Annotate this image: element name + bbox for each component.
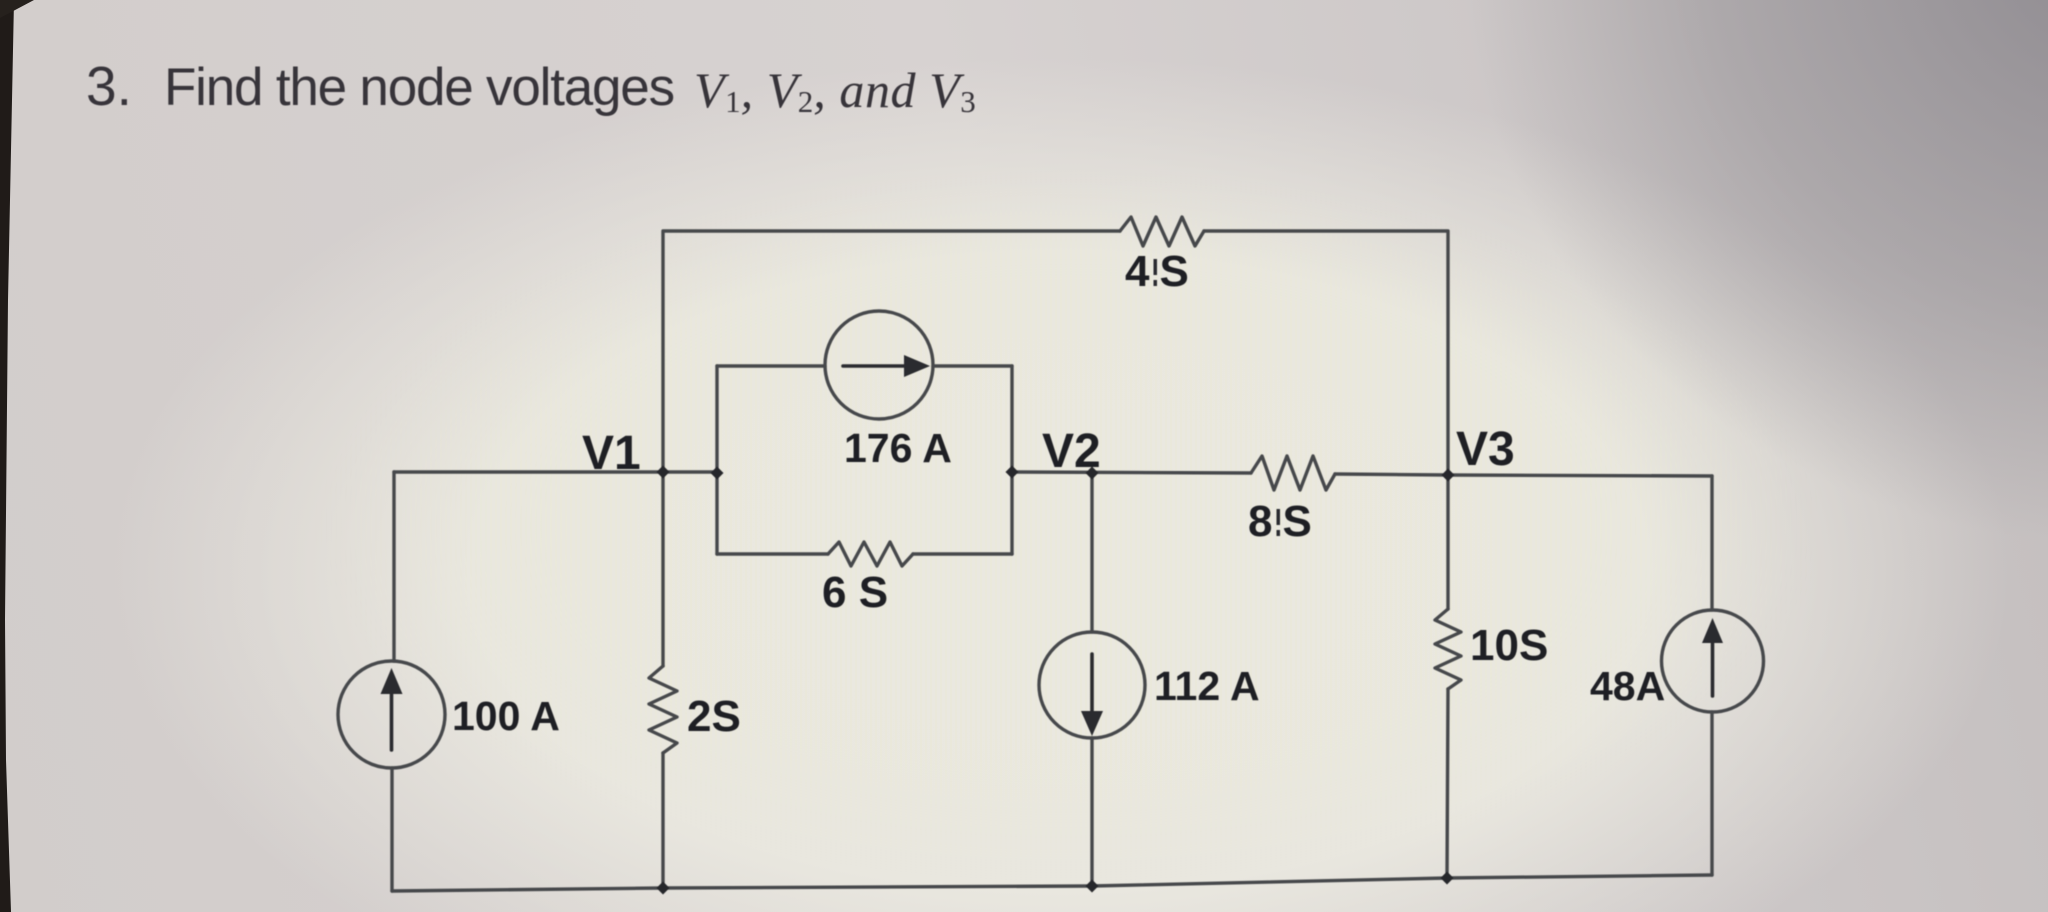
svg-text:2S: 2S <box>687 692 741 741</box>
wire: V2 vertical upper (node to 112A) <box>1090 473 1093 632</box>
resistor R3 4S zigzag <box>1120 217 1204 246</box>
wire: bottom rail <box>392 875 1712 891</box>
junction dot: bottom rail at V2 branch <box>1086 880 1099 893</box>
svg-text:112 A: 112 A <box>1154 663 1260 709</box>
arrow I4 48A (up) <box>1711 642 1715 696</box>
wire: 8S to V3 to right corner <box>1335 474 1712 476</box>
wire: left outer branch top (100A to V1) <box>394 470 663 473</box>
current source I1 100A circle <box>338 661 445 768</box>
svg-text:10S: 10S <box>1470 621 1548 670</box>
svg-text:V1: V1 <box>582 427 641 480</box>
junction dot: node V2 <box>1086 467 1099 480</box>
junction dot: bottom rail at V3 branch <box>1441 872 1454 885</box>
current source I2 176A circle <box>825 311 933 419</box>
svg-text:176 A: 176 A <box>844 425 952 471</box>
wire: subloop right vertical <box>1010 366 1013 554</box>
wire: V1 vertical upper (node to 2S) <box>661 472 664 666</box>
wire: V3 vertical upper (node to 10S) <box>1446 475 1449 609</box>
svg-text:6 S: 6 S <box>822 568 888 617</box>
resistor R5 10S zigzag <box>1435 609 1461 689</box>
wire: subloop bottom right segment <box>913 552 1012 555</box>
wire: main run subloop-right to V2 to 8S <box>1012 472 1251 473</box>
title: problem statement <box>0 0 2048 1</box>
wire: subloop left vertical <box>715 366 718 554</box>
svg-text:V2: V2 <box>1042 425 1101 478</box>
wire: subloop top left segment <box>717 364 825 367</box>
current source I3 112A circle <box>1039 632 1145 738</box>
wire: left outer vertical upper (above 100A source) <box>392 472 395 661</box>
svg-text:V3: V3 <box>1456 423 1515 476</box>
wire: V3 vertical lower (10S to bottom rail) <box>1447 689 1448 878</box>
resistor R1 2S zigzag <box>649 666 677 753</box>
arrow I3 112A (down) <box>1090 654 1094 712</box>
arrow I1 100A (up) <box>390 694 394 750</box>
resistor R4 8S zigzag <box>1251 456 1335 490</box>
wire: V2 vertical lower (112A to bottom rail) <box>1090 738 1093 886</box>
junction dot: subloop right on main wire <box>1006 466 1019 479</box>
wire: V1 to subloop left <box>663 470 717 473</box>
arrow I2 176A (right) <box>843 364 908 368</box>
wire: right outer vertical lower (48A to bottom rail) <box>1710 712 1713 875</box>
svg-text:100 A: 100 A <box>452 693 560 739</box>
wire: V1 vertical lower (2S to bottom rail) <box>661 753 664 888</box>
wire: left outer vertical lower (below 100A source) <box>390 768 393 891</box>
resistor R2 6S zigzag <box>828 542 913 566</box>
junction dot: node V1 <box>657 466 670 479</box>
wire: top loop V1 to top-right corner (4S branch) <box>663 231 1120 472</box>
junction dot: bottom rail at V1 branch <box>657 882 670 895</box>
svg-text:48A: 48A <box>1590 663 1665 709</box>
wire: subloop top right segment <box>933 364 1012 367</box>
wire: top loop right segment down to V3 <box>1204 231 1448 472</box>
current source I4 48A circle <box>1662 610 1764 712</box>
junction dot: subloop left on main wire <box>711 467 724 480</box>
junction dot: node V3 <box>1442 469 1455 482</box>
wire: right outer vertical upper (corner to 48A) <box>1710 476 1713 610</box>
wire: subloop bottom left segment <box>717 552 828 555</box>
